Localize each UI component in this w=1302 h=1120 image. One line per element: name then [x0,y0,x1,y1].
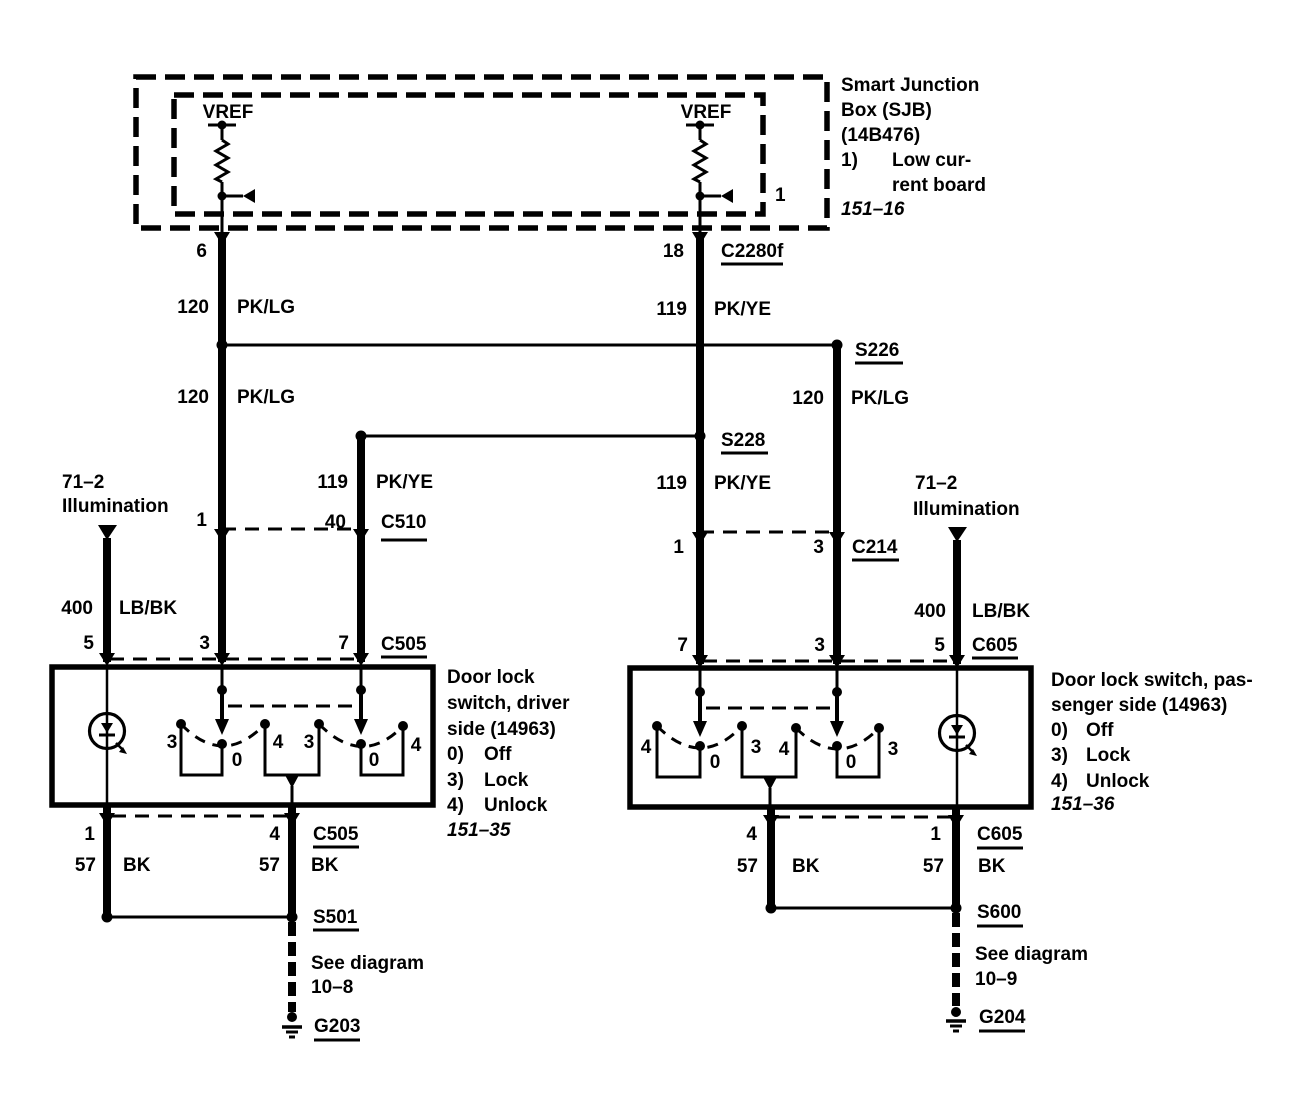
splice S600 tie wire [771,907,956,910]
svg-text:3: 3 [304,732,315,753]
svg-text:119: 119 [317,472,348,493]
wire label 400 LB/BK left [61,598,177,619]
illumination lamp driver (LED in circle) [90,667,128,805]
svg-text:1): 1) [841,150,858,171]
driver lock switch wiper (pin 3 input) [215,667,229,749]
Smart Junction Box (SJB) outer dashed enclosure [136,77,827,228]
svg-text:Illumination: Illumination [62,496,169,517]
wire label 57 BK right [259,855,339,876]
svg-text:C605: C605 [972,635,1018,656]
svg-text:119: 119 [656,473,687,494]
svg-text:151–16: 151–16 [841,199,905,220]
svg-text:0: 0 [710,752,721,773]
arrowhead PK/LG into C605 pin 3 [829,655,845,668]
svg-text:3: 3 [751,737,762,758]
driver sw1 contact 3 [176,719,186,729]
ground G204 [946,1007,966,1031]
ground feed wire (off-page) to G204 [952,913,960,1006]
driver sw2 off-position link 0-4 [361,729,403,775]
ground feed wire (off-page) to G203 [288,922,296,1012]
svg-text:PK/LG: PK/LG [237,387,295,408]
mechanical link dashed (driver) [228,705,358,708]
svg-text:3): 3) [447,770,464,791]
svg-text:3: 3 [199,633,210,654]
svg-text:LB/BK: LB/BK [119,598,177,619]
driver switch annotation text [447,667,570,841]
svg-text:4: 4 [779,739,790,760]
svg-text:Unlock: Unlock [484,795,548,816]
connector C505 label (bottom) [313,824,359,847]
svg-text:Unlock: Unlock [1086,771,1150,792]
svg-text:Off: Off [1086,720,1114,741]
see diagram 10-9 note [975,944,1088,990]
splice S600 [951,902,1024,926]
svg-text:151–35: 151–35 [447,820,511,841]
svg-text:BK: BK [978,856,1006,877]
wire 57 BK from passenger pin 4 [763,807,779,908]
wire label 120 PK/LG (upper) [177,297,295,318]
arrowhead PK/YE into C505 pin 7 [353,653,369,666]
connector C605 label (top) [972,635,1018,658]
see diagram 10-8 note [311,953,424,998]
svg-text:switch, driver: switch, driver [447,693,570,714]
svg-text:1: 1 [930,824,941,845]
splice S501 [287,907,360,930]
svg-text:Door lock switch, pas-: Door lock switch, pas- [1051,670,1253,691]
svg-text:10–8: 10–8 [311,977,353,998]
svg-text:4: 4 [411,735,422,756]
svg-text:120: 120 [177,297,209,318]
connector C214 dashed line [700,531,837,534]
svg-text:4): 4) [447,795,464,816]
wire label 119 PK/YE (upper) [656,299,771,320]
svg-text:1: 1 [775,185,786,206]
resistor R-VREF-left [216,125,228,232]
svg-text:S501: S501 [313,907,358,928]
svg-text:3: 3 [888,739,899,760]
svg-text:3: 3 [813,537,824,558]
svg-text:7: 7 [338,633,349,654]
passenger sw2 contact 4 [791,723,801,733]
illumination feed label left (71-2) [62,472,169,517]
svg-text:0): 0) [1051,720,1068,741]
wire 400 LB/BK driver side [98,525,117,662]
junction dot on PK/YE branch at top of wire 119 [356,431,367,442]
wire label 400 LB/BK right [914,601,1030,622]
passenger lock switch wiper (pin 7 input) [693,668,707,751]
passenger switch annotation text [1051,670,1253,815]
splice S501 tie wire [107,916,292,919]
node VREF (left) [203,102,254,130]
svg-text:Off: Off [484,744,512,765]
passenger sw1 off-position link 4-0 [657,729,700,777]
svg-text:Low cur-: Low cur- [892,150,971,171]
svg-text:C510: C510 [381,512,426,533]
connector C214 label [852,537,899,560]
ground G203 [282,1012,302,1037]
sense input arrowhead right (to SJB logic) [696,189,734,203]
connector C510 label [381,512,427,540]
svg-text:1: 1 [84,824,95,845]
illumination lamp passenger (LED in circle) [940,668,978,807]
wire 119 PK/YE branch to driver switch [357,436,365,662]
driver sw1 travel arc [181,724,265,746]
driver sw2 contact 4 [398,721,408,731]
svg-text:3: 3 [814,635,825,656]
svg-text:71–2: 71–2 [62,472,104,493]
svg-text:1: 1 [673,537,684,558]
svg-text:5: 5 [83,633,94,654]
splice S228 [695,430,769,453]
svg-text:BK: BK [123,855,151,876]
arrowhead on PK/LG at C510 [214,529,230,542]
svg-text:S600: S600 [977,902,1021,923]
wire label 119 PK/YE (lower) [656,473,771,494]
connector C605 label (bottom) [977,824,1023,848]
wire 120 PK/LG to passenger switch [833,345,841,664]
svg-text:Box (SJB): Box (SJB) [841,100,932,121]
svg-text:4): 4) [1051,771,1068,792]
svg-text:57: 57 [737,856,758,877]
svg-text:side (14963): side (14963) [447,719,556,740]
svg-text:Illumination: Illumination [913,499,1020,520]
driver lock switch wiper 2 (pin 7 input) [354,667,368,749]
svg-text:120: 120 [177,387,209,408]
svg-text:rent board: rent board [892,175,986,196]
arrowhead LB/BK into C605 pin 5 [949,655,965,668]
illumination feed label right (71-2) [913,473,1020,520]
svg-text:PK/YE: PK/YE [376,472,433,493]
splice wire to S228 (horizontal) [361,435,700,438]
svg-text:PK/LG: PK/LG [851,388,909,409]
svg-text:10–9: 10–9 [975,969,1017,990]
wire label 119 PK/YE (branch) [317,472,433,493]
node VREF (right) [681,102,732,130]
connector C605 dashed line at passenger switch [703,660,952,663]
passenger sw1 contact 4 [652,721,662,731]
connector C510 dashed line [222,528,361,531]
svg-text:400: 400 [914,601,946,622]
door lock switch passenger side box (14963) [630,668,1031,807]
arrowhead on PK/YE at C214 [692,532,708,545]
svg-text:C214: C214 [852,537,898,558]
passenger lock switch wiper 2 (pin 3 input) [830,668,844,751]
svg-text:0: 0 [846,752,857,773]
arrowhead on PK/LG at C214 [829,532,845,545]
svg-text:Door lock: Door lock [447,667,535,688]
svg-text:C505: C505 [381,634,427,655]
wire 57 BK from driver pin 4 [284,805,300,917]
driver switch output node to pin 4 [265,727,319,805]
connector C505 label (top) [381,634,427,657]
driver sw2 contact 3 [314,719,324,729]
ground G204 label [979,1007,1026,1031]
svg-text:0: 0 [369,750,380,771]
svg-text:G204: G204 [979,1007,1026,1028]
splice wire to S226 (horizontal) [222,344,837,347]
svg-text:400: 400 [61,598,93,619]
svg-text:0): 0) [447,744,464,765]
passenger switch output node to pin 4 [742,729,796,807]
svg-text:Lock: Lock [484,770,529,791]
passenger sw1 travel arc [657,726,742,748]
svg-text:S226: S226 [855,340,899,361]
wire label 57 BK passenger left [737,856,820,877]
svg-text:C605: C605 [977,824,1023,845]
wire label 120 PK/LG (right branch) [792,388,909,409]
svg-text:71–2: 71–2 [915,473,957,494]
SJB low-current board inner dashed enclosure (1) [174,95,763,214]
svg-text:See diagram: See diagram [975,944,1088,965]
svg-text:3: 3 [167,732,178,753]
wire label 120 PK/LG (lower) [177,387,295,408]
svg-text:Lock: Lock [1086,745,1131,766]
junction dot on PK/LG at S226 branch [217,340,228,351]
svg-text:senger side (14963): senger side (14963) [1051,695,1227,716]
connector C2280f label [721,241,784,264]
splice S226 [832,340,904,364]
arrowhead PK/LG into C505 pin 3 [214,653,230,666]
svg-text:120: 120 [792,388,824,409]
wire 57 BK from driver pin 1 [99,805,115,917]
door lock switch driver side box (14963) [52,667,433,805]
connector C605 dashed line (bottom) [776,816,950,819]
connector C505 dashed line (bottom) [112,815,288,818]
driver sw2 travel arc [319,724,403,747]
svg-text:4: 4 [641,737,652,758]
mechanical link dashed (passenger) [706,707,834,710]
svg-text:40: 40 [325,512,346,533]
arrowhead LB/BK into C505 pin 5 [99,653,115,666]
svg-text:LB/BK: LB/BK [972,601,1030,622]
passenger sw2 off-position link 0-3 [837,731,879,777]
passenger sw1 contact 3 [737,721,747,731]
wire 119 PK/YE from SJB pin 18 [692,232,708,664]
svg-text:1: 1 [196,510,207,531]
connector C505 dashed line at driver switch [110,658,357,661]
junction dot left at S501 [102,912,113,923]
wire 400 LB/BK passenger side [948,527,967,664]
wire label 57 BK passenger right [923,856,1006,877]
svg-text:BK: BK [792,856,820,877]
svg-text:0: 0 [232,750,243,771]
svg-text:BK: BK [311,855,339,876]
svg-text:S228: S228 [721,430,765,451]
svg-text:PK/YE: PK/YE [714,299,771,320]
svg-text:5: 5 [934,635,945,656]
svg-text:C2280f: C2280f [721,241,784,262]
svg-text:57: 57 [75,855,96,876]
svg-text:Smart Junction: Smart Junction [841,75,979,96]
svg-text:4: 4 [269,824,280,845]
svg-text:4: 4 [273,732,284,753]
svg-text:57: 57 [923,856,944,877]
wire 57 BK from passenger pin 1 [948,807,964,908]
svg-text:18: 18 [663,241,684,262]
svg-text:57: 57 [259,855,280,876]
arrowhead PK/YE into C605 pin 7 [692,655,708,668]
sense input arrowhead left (to SJB logic) [218,189,256,203]
wire label 57 BK left [75,855,151,876]
svg-text:151–36: 151–36 [1051,794,1115,815]
svg-text:PK/LG: PK/LG [237,297,295,318]
passenger sw2 contact 3 [874,723,884,733]
svg-text:3): 3) [1051,745,1068,766]
driver sw1 off-position link 3-0 [181,727,222,775]
driver sw1 contact 4 [260,719,270,729]
svg-text:(14B476): (14B476) [841,125,920,146]
ground G203 label [314,1016,360,1040]
wire 120 PK/LG from SJB pin 6 [214,232,230,662]
svg-text:See diagram: See diagram [311,953,424,974]
svg-text:VREF: VREF [681,102,732,123]
svg-text:VREF: VREF [203,102,254,123]
svg-text:7: 7 [677,635,688,656]
svg-text:PK/YE: PK/YE [714,473,771,494]
resistor R-VREF-right [694,125,706,232]
svg-text:4: 4 [746,824,757,845]
svg-text:C505: C505 [313,824,359,845]
junction dot left at S600 [766,903,777,914]
arrowhead on PK/YE at C510 [353,529,369,542]
passenger sw2 travel arc [796,728,879,749]
svg-text:6: 6 [196,241,207,262]
SJB annotation text [841,75,986,220]
svg-text:G203: G203 [314,1016,360,1037]
svg-text:119: 119 [656,299,687,320]
